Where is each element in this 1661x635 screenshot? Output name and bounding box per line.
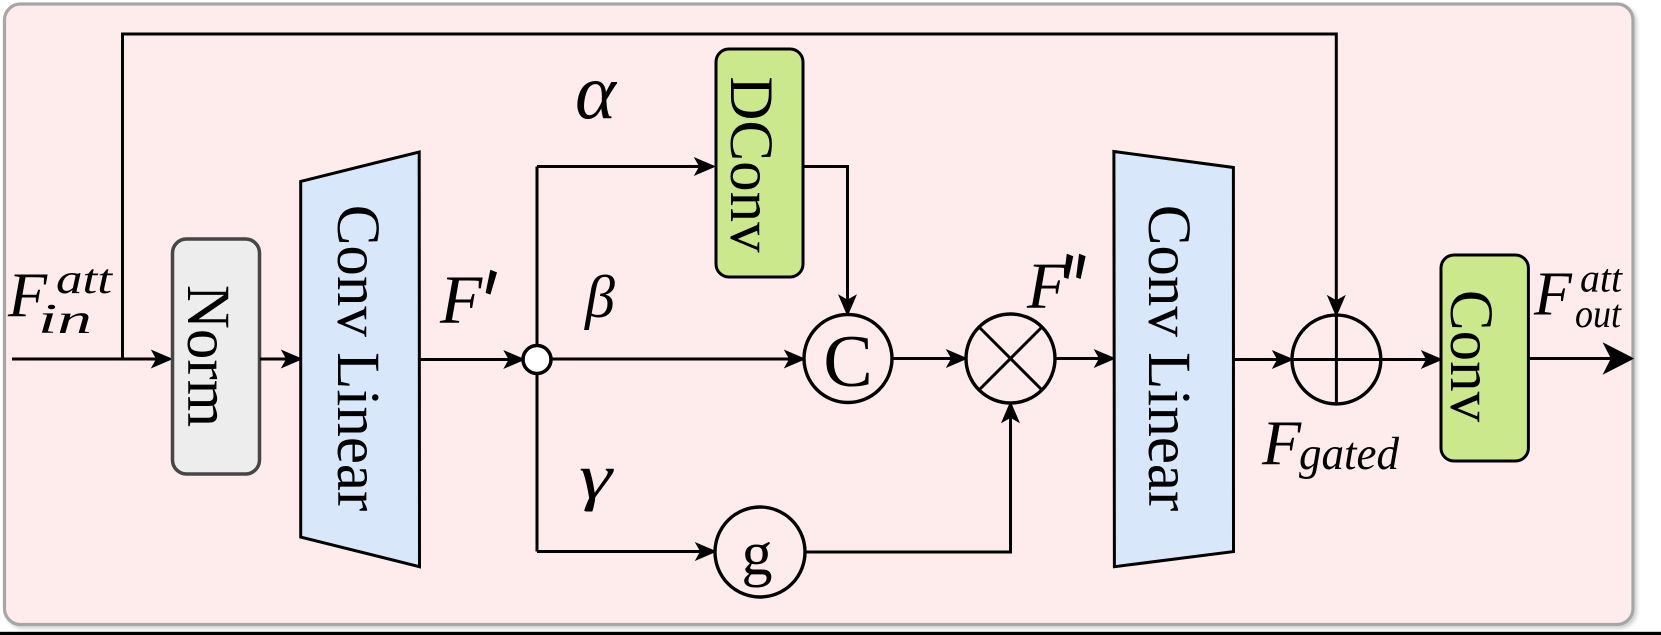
node label F' <box>439 262 497 338</box>
op multiply (circle with X) <box>966 314 1055 403</box>
bottom black rule <box>0 632 1661 635</box>
wire: beta branch into concat C <box>537 352 803 365</box>
svg-text:γ: γ <box>579 441 614 512</box>
svg-text:β: β <box>584 264 615 330</box>
wire: skip connection (input to adder, over the top) <box>123 34 1343 359</box>
block Conv <box>1437 255 1528 461</box>
node label F_gated <box>1261 407 1399 480</box>
svg-text:g: g <box>742 520 773 588</box>
op adder (circle with plus) <box>1292 315 1381 404</box>
op gate g <box>715 507 805 597</box>
wire: DConv output down into concat C <box>803 167 854 314</box>
svg-text:α: α <box>575 48 618 135</box>
wire: Conv Linear 1 to split node <box>420 353 523 366</box>
wire: adder to Conv <box>1381 353 1440 366</box>
node label F_out^att <box>1533 256 1623 337</box>
svg-text:Norm: Norm <box>174 285 241 427</box>
op concat C <box>804 315 892 404</box>
wire: alpha branch into DConv <box>537 160 713 173</box>
wire: multiply to Conv Linear 2 <box>1055 352 1112 365</box>
wire: input line into Norm <box>12 352 170 365</box>
svg-text:F: F <box>1026 250 1068 323</box>
svg-text:Conv Linear: Conv Linear <box>1135 205 1202 512</box>
wire: Norm to Conv Linear 1 <box>260 352 300 365</box>
block Norm <box>173 239 260 474</box>
block Conv Linear 2 (contracting trapezoid) <box>1114 152 1234 567</box>
wire: g output up into multiply <box>805 405 1017 553</box>
svg-text:F: F <box>1261 407 1302 478</box>
svg-text:out: out <box>1575 291 1622 336</box>
wire: output arrow <box>1528 346 1631 372</box>
svg-text:gated: gated <box>1299 428 1399 480</box>
svg-text:C: C <box>823 321 872 403</box>
svg-text:F: F <box>1533 261 1573 329</box>
svg-text:Conv: Conv <box>1437 290 1504 423</box>
svg-text:Conv Linear: Conv Linear <box>324 205 391 512</box>
svg-text:in: in <box>38 297 92 343</box>
svg-text:F: F <box>439 262 483 338</box>
svg-text:DConv: DConv <box>717 76 784 253</box>
node label F'' <box>1026 250 1086 323</box>
wire: Conv Linear 2 to adder <box>1234 353 1291 366</box>
node label F_in^att <box>7 257 114 343</box>
block Conv Linear 1 (expanding trapezoid) <box>301 152 420 567</box>
wire: gamma branch into gate g <box>537 545 714 558</box>
wire: vertical split line through node <box>536 167 539 552</box>
block DConv <box>716 49 803 277</box>
split node (white junction dot) <box>523 346 551 374</box>
wire: C to multiply <box>892 352 965 365</box>
